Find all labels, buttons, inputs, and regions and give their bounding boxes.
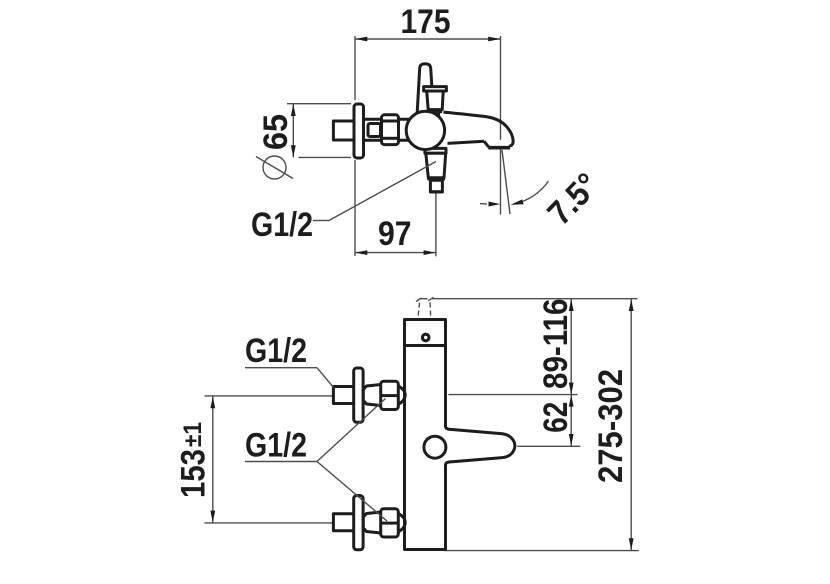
svg-text:65: 65 [257,114,295,150]
svg-text:175: 175 [401,3,451,41]
svg-text:275-302: 275-302 [592,369,630,483]
svg-text:62: 62 [537,402,575,433]
svg-text:G1/2: G1/2 [245,332,307,370]
svg-text:G1/2: G1/2 [251,206,313,244]
svg-text:153: 153 [174,449,212,498]
svg-text:±1: ±1 [179,422,207,447]
svg-text:89-116: 89-116 [537,299,575,390]
svg-text:G1/2: G1/2 [245,427,307,465]
svg-text:97: 97 [378,215,412,253]
